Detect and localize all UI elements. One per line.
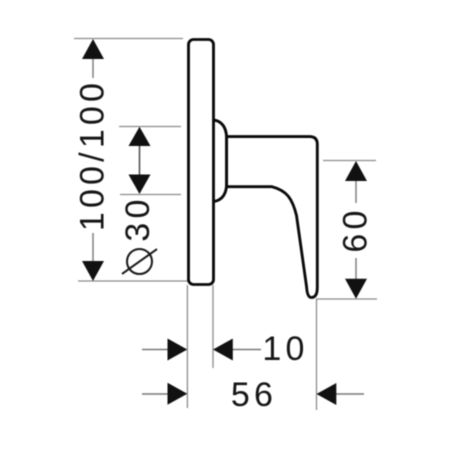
svg-text:100/100: 100/100: [74, 79, 112, 231]
svg-text:60: 60: [337, 206, 375, 252]
svg-text:10: 10: [262, 330, 308, 368]
svg-text:30: 30: [119, 195, 157, 241]
svg-text:56: 56: [231, 376, 277, 414]
